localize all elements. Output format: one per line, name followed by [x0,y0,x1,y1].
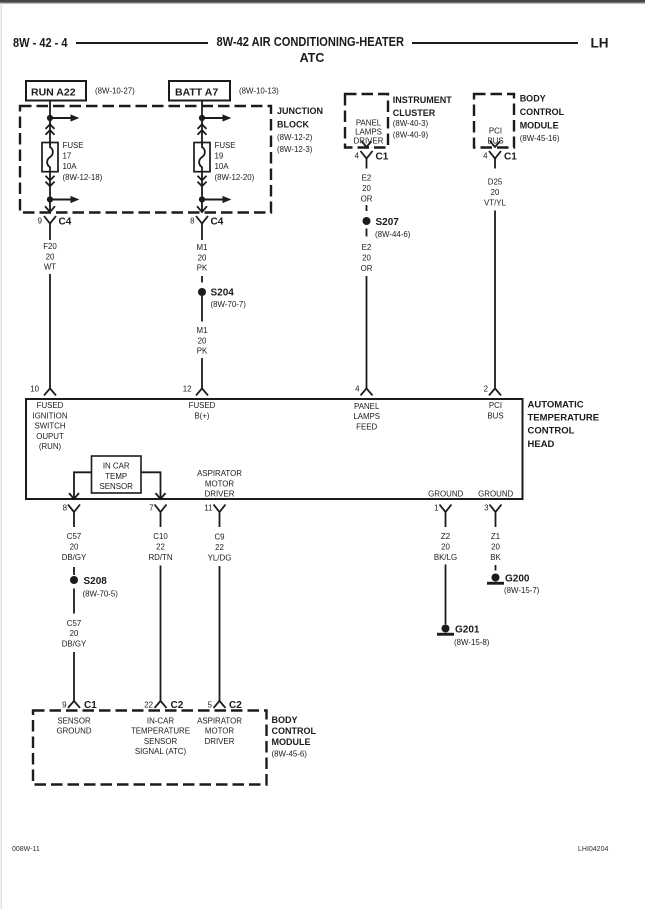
svg-text:8W - 42 - 4: 8W - 42 - 4 [13,36,68,50]
svg-text:SENSOR: SENSOR [100,482,134,491]
svg-text:TEMPERATURE: TEMPERATURE [131,727,190,736]
svg-text:Z2: Z2 [441,532,450,541]
svg-text:FEED: FEED [356,422,377,431]
connector C4 pin 8 [190,216,224,234]
svg-text:PANEL: PANEL [354,402,380,411]
svg-text:JUNCTION: JUNCTION [277,106,323,116]
body control module dashed box (top) [474,94,565,148]
svg-text:GROUND: GROUND [56,727,91,736]
svg-text:F20: F20 [43,242,57,251]
connector chevron at block edge [197,206,207,212]
wire F20 20 WT [43,233,57,389]
svg-text:FUSE: FUSE [63,141,84,150]
aspirator motor driver label (BCM) [197,716,242,746]
svg-text:MODULE: MODULE [272,737,311,747]
svg-text:RD/TN: RD/TN [148,553,172,562]
svg-text:S208: S208 [84,576,108,587]
header LH [591,36,609,51]
svg-text:CONTROL: CONTROL [528,426,575,437]
svg-text:ATC: ATC [300,51,325,65]
svg-text:20: 20 [441,542,450,551]
pin 2 into ATC head [484,385,501,396]
svg-text:BLOCK: BLOCK [277,119,309,129]
svg-text:OR: OR [361,195,373,204]
pin 9 into BCM [62,700,97,711]
junction block dashed box [20,106,323,213]
connector pin 11 below ATC [204,504,225,523]
svg-text:MOTOR: MOTOR [205,727,235,736]
connector pin 3 below ATC [484,504,501,523]
wire fuse 19 to C4 [201,172,203,213]
svg-text:20: 20 [491,188,500,197]
header title [217,35,405,65]
pin 22 into BCM [144,700,184,711]
svg-text:22: 22 [156,542,165,551]
svg-text:C10: C10 [153,532,168,541]
pin 10 label [32,401,67,451]
svg-text:10A: 10A [63,162,78,171]
svg-text:SENSOR: SENSOR [57,716,91,725]
fuse F19 [194,141,255,182]
wire E2 20 OR upper [361,174,373,212]
sensor ground label [56,716,91,735]
connector C1 pin 4 (BCM) [483,151,517,169]
svg-text:7: 7 [149,504,153,513]
svg-text:C4: C4 [59,217,72,228]
svg-text:(8W-10-13): (8W-10-13) [239,87,279,96]
svg-text:TEMPERATURE: TEMPERATURE [528,413,600,424]
svg-text:(8W-12-20): (8W-12-20) [215,173,255,182]
connector chevron at BCM edge [490,141,500,147]
header rule left [76,42,208,44]
svg-text:SIGNAL (ATC): SIGNAL (ATC) [135,747,187,756]
ATC head box [26,399,599,499]
svg-text:1: 1 [434,504,438,513]
svg-text:LAMPS: LAMPS [355,128,382,137]
svg-text:(8W-70-5): (8W-70-5) [83,589,119,598]
svg-text:(8W-12-2): (8W-12-2) [277,133,313,142]
svg-text:FUSED: FUSED [189,401,216,410]
header text 8W-42-4 [13,36,68,50]
svg-text:22: 22 [215,543,224,552]
svg-text:20: 20 [198,336,207,345]
svg-text:HEAD: HEAD [528,439,555,450]
svg-text:BODY: BODY [272,715,298,725]
svg-text:(8W-44-6): (8W-44-6) [375,230,411,239]
svg-text:PK: PK [197,264,208,273]
node junction dot + feed arrow [47,114,79,121]
pin 2 label [487,401,503,420]
svg-text:C57: C57 [67,532,81,541]
wire C57 20 DB/GY lower [62,589,87,702]
connector chevron at block edge [45,206,55,212]
svg-text:4: 4 [483,152,488,161]
svg-text:(8W-70-7): (8W-70-7) [211,300,247,309]
connector chevron at cluster edge [362,141,372,147]
svg-text:TEMP: TEMP [105,472,127,481]
header rule right [412,42,578,44]
svg-text:SWITCH: SWITCH [34,422,65,431]
svg-text:BATT A7: BATT A7 [175,87,218,99]
connector pin 7 below ATC [149,504,166,523]
page top scan bar [0,0,645,3]
svg-text:(8W-10-27): (8W-10-27) [95,87,135,96]
svg-text:IN CAR: IN CAR [103,462,130,471]
svg-text:DRIVER: DRIVER [205,490,235,499]
svg-text:INSTRUMENT: INSTRUMENT [393,95,452,105]
instrument cluster dashed box [345,94,452,148]
connector C1 pin 4 (cluster) [355,151,389,169]
svg-text:M1: M1 [197,326,208,335]
svg-text:M1: M1 [197,243,208,252]
svg-text:DB/GY: DB/GY [62,553,87,562]
svg-text:BK/LG: BK/LG [434,553,457,562]
svg-text:PCI: PCI [489,401,502,410]
svg-text:C4: C4 [211,217,224,228]
ground G201 [437,625,490,647]
pin 4 label [353,402,380,432]
svg-text:FUSED: FUSED [37,401,64,410]
wire C10 22 RD/TN [148,522,172,702]
svg-text:C57: C57 [67,619,81,628]
svg-text:DB/GY: DB/GY [62,640,87,649]
svg-text:20: 20 [362,253,371,262]
svg-text:20: 20 [491,542,500,551]
svg-text:20: 20 [70,542,79,551]
svg-text:(8W-12-18): (8W-12-18) [63,173,103,182]
node RUN A22 [26,81,135,101]
svg-text:(RUN): (RUN) [39,442,62,451]
svg-text:20: 20 [198,253,207,262]
svg-text:9: 9 [38,217,43,226]
svg-text:ASPIRATOR: ASPIRATOR [197,716,242,725]
wire BATT A7 to fuse 19 [201,101,203,143]
svg-text:4: 4 [355,152,360,161]
body control module dashed box (bottom) [33,711,316,785]
svg-text:CONTROL: CONTROL [520,107,565,117]
svg-text:C9: C9 [214,533,225,542]
svg-text:LHI04204: LHI04204 [578,846,608,853]
svg-text:(8W-40-9): (8W-40-9) [393,130,429,139]
splice S207 [363,217,411,239]
pin 10 into ATC head [30,385,56,396]
page left scan edge [1,3,2,909]
in-car temperature sensor signal label [131,716,190,756]
svg-text:(8W-15-8): (8W-15-8) [454,638,490,647]
svg-text:19: 19 [215,151,224,160]
wire RUN A22 to fuse 17 [49,101,51,143]
svg-text:D25: D25 [488,178,503,187]
svg-text:YL/DG: YL/DG [208,553,232,562]
svg-text:LH: LH [591,36,609,51]
svg-text:IGNITION: IGNITION [32,411,67,420]
svg-text:E2: E2 [362,174,372,183]
svg-text:3: 3 [484,504,489,513]
node BATT A7 [169,81,279,101]
svg-text:10A: 10A [215,162,230,171]
svg-text:4: 4 [355,385,360,394]
svg-text:20: 20 [362,184,371,193]
svg-text:PANEL: PANEL [356,119,382,128]
svg-text:BODY: BODY [520,94,546,104]
svg-text:OR: OR [361,264,373,273]
svg-text:MOTOR: MOTOR [205,479,235,488]
svg-text:CLUSTER: CLUSTER [393,108,436,118]
svg-text:BUS: BUS [487,137,503,146]
svg-text:BUS: BUS [487,411,503,420]
svg-text:17: 17 [63,151,72,160]
node junction dot + feed arrow [199,114,231,121]
svg-text:SENSOR: SENSOR [144,737,178,746]
svg-text:10: 10 [30,385,39,394]
pin 12 into ATC head [183,385,208,396]
svg-text:OUPUT: OUPUT [36,432,64,441]
svg-text:22: 22 [144,701,153,710]
svg-text:11: 11 [204,504,212,513]
svg-text:E2: E2 [362,243,372,252]
svg-text:RUN A22: RUN A22 [31,87,76,99]
connector chevrons [46,176,55,186]
connector C4 pin 9 [38,216,72,234]
svg-text:008W-11: 008W-11 [12,846,40,853]
wire fuse 17 to C4 [49,172,51,213]
svg-text:PK: PK [197,347,208,356]
connector pin 8 below ATC [63,504,80,523]
svg-text:2: 2 [484,385,488,394]
fuse F17 [42,141,103,182]
svg-text:LAMPS: LAMPS [353,412,380,421]
svg-text:GROUND: GROUND [428,489,463,498]
svg-text:(8W-45-16): (8W-45-16) [520,134,560,143]
svg-text:20: 20 [46,252,55,261]
svg-text:C1: C1 [376,152,389,163]
svg-text:VT/YL: VT/YL [484,199,507,208]
svg-text:(8W-45-6): (8W-45-6) [272,750,308,759]
splice S208 [70,576,118,598]
svg-text:5: 5 [208,701,213,710]
svg-text:AUTOMATIC: AUTOMATIC [528,399,584,410]
wire E2 20 OR lower [361,243,373,389]
svg-text:8: 8 [190,217,195,226]
svg-text:9: 9 [62,701,67,710]
svg-text:8W-42 AIR CONDITIONING-HEATER: 8W-42 AIR CONDITIONING-HEATER [217,35,405,49]
svg-text:(8W-12-3): (8W-12-3) [277,145,313,154]
wire Z2 20 BK/LG [434,522,457,624]
svg-text:12: 12 [183,385,192,394]
svg-text:(8W-15-7): (8W-15-7) [504,586,540,595]
svg-text:C1: C1 [504,152,517,163]
svg-text:G201: G201 [455,625,480,636]
wire M1 20 PK lower [197,296,208,389]
connector chevrons [198,176,207,186]
connector chevrons [198,124,207,134]
in car temp sensor box [92,456,142,493]
svg-text:MODULE: MODULE [520,120,559,130]
svg-text:DRIVER: DRIVER [205,737,235,746]
splice S204 [198,288,246,310]
node junction dot + feed arrow [199,196,231,203]
wire sensor to pin 7 [141,472,161,498]
svg-text:IN-CAR: IN-CAR [147,716,174,725]
svg-text:S207: S207 [376,217,400,228]
svg-text:B(+): B(+) [194,411,209,420]
svg-text:ASPIRATOR: ASPIRATOR [197,469,242,478]
svg-text:CONTROL: CONTROL [272,726,317,736]
connector pin 1 below ATC [434,504,451,523]
svg-text:G200: G200 [505,574,530,585]
svg-text:(8W-40-3): (8W-40-3) [393,119,429,128]
connector chevrons [46,124,55,134]
svg-text:8: 8 [63,504,68,513]
node junction dot + feed arrow [47,196,79,203]
svg-text:WT: WT [44,263,56,272]
aspirator motor driver label [197,469,242,499]
svg-text:GROUND: GROUND [478,489,513,498]
svg-text:PCI: PCI [489,127,502,136]
wire C57 20 DB/GY upper [62,522,87,575]
svg-text:S204: S204 [211,288,235,299]
wire M1 20 PK upper [197,233,208,283]
wire Z1 20 BK [490,522,501,571]
pin 5 into BCM [208,700,243,711]
wire C9 22 YL/DG [208,522,232,702]
svg-text:Z1: Z1 [491,532,500,541]
svg-text:20: 20 [70,629,79,638]
wire D25 20 VT/YL [484,178,507,389]
pin 12 label [189,401,216,420]
svg-text:BK: BK [490,553,501,562]
pin 4 into ATC head [355,385,372,396]
wire sensor to pin 8 [74,472,92,498]
ground G200 [487,574,540,596]
svg-text:FUSE: FUSE [215,141,236,150]
